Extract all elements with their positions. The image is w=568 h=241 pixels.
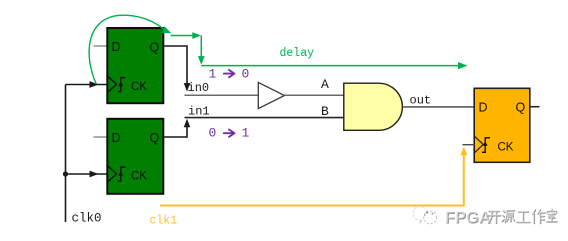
svg-text:A: A (321, 77, 329, 92)
svg-text:FPGA: FPGA (445, 209, 491, 227)
svg-text:1: 1 (209, 67, 217, 82)
wire D input stub of FF2 (94, 136, 108, 138)
源 (503, 211, 515, 223)
annotation 0 -> 1 (209, 126, 250, 141)
svg-text:CK: CK (498, 142, 514, 154)
flip-flop FF1 (107, 28, 163, 103)
svg-text:clk0: clk0 (72, 212, 102, 226)
svg-text:1: 1 (242, 126, 250, 141)
green arrow down to delay line (198, 36, 205, 65)
wire FF1 Q feedback to in0 (164, 46, 191, 92)
svg-text:Q: Q (150, 41, 160, 55)
svg-text:0: 0 (209, 126, 217, 141)
green arrow Q corner right (171, 32, 202, 39)
wire clk0 branch to FF2 CK (66, 171, 107, 178)
作 (532, 209, 544, 223)
开 (488, 212, 501, 224)
源 (502, 210, 514, 222)
wire FF3 Q stub (530, 106, 540, 108)
工 (517, 212, 530, 223)
flip-flop FF2 (107, 119, 163, 194)
svg-text:D: D (112, 40, 121, 54)
junction dot on clk0 at FF2 CK branch (63, 171, 68, 176)
svg-text:0: 0 (242, 67, 250, 82)
svg-text:D: D (112, 131, 121, 145)
watermark CJK emboss overlay (487, 209, 557, 223)
svg-text:in0: in0 (188, 81, 210, 95)
annotation 1 -> 0 (209, 67, 250, 82)
wire FF3 CK stub (463, 144, 475, 146)
wire FF2 Q up to in1 (164, 119, 191, 137)
wire in0 to buffer (185, 94, 259, 96)
watermark logo sketch (413, 207, 437, 224)
wire clk0 vertical trunk (65, 85, 67, 223)
svg-text:delay: delay (280, 47, 315, 60)
wire D input stub of FF1 (94, 45, 108, 47)
orange clk1 wire with up arrow to FF3 CK (160, 147, 467, 206)
svg-text:in1: in1 (188, 105, 210, 119)
wire in1 / B input (185, 117, 344, 119)
svg-text:Q: Q (150, 131, 160, 145)
svg-text:B: B (321, 104, 329, 119)
工 (516, 211, 529, 222)
作 (533, 210, 545, 224)
svg-text:Q: Q (516, 101, 526, 115)
开 (487, 211, 500, 223)
svg-text:clk1: clk1 (150, 215, 178, 228)
watermark text 开源工作室 (drawn glyphs) (488, 210, 558, 224)
wire clk0 branch to FF1 CK (66, 81, 107, 88)
green feedback arc CK to Q (89, 15, 171, 84)
室 (547, 210, 557, 222)
svg-text:D: D (479, 101, 488, 115)
svg-text:CK: CK (131, 81, 147, 93)
wire AND output to FF3 D (402, 106, 474, 108)
svg-text:out: out (410, 94, 432, 108)
buffer U1 (258, 82, 284, 108)
flip-flop FF3 (474, 88, 530, 162)
wire buffer out / A input (285, 94, 344, 96)
svg-text:CK: CK (131, 171, 147, 183)
green delay arrow (201, 62, 467, 69)
AND gate U2 (344, 83, 403, 130)
室 (546, 209, 556, 221)
